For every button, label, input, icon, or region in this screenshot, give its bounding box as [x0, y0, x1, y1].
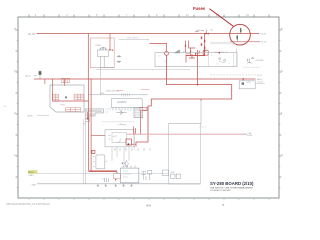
- Fuses callout leader line: [210, 9, 234, 27]
- svg-text:s1: s1: [228, 63, 230, 65]
- red pin grid bottom: [66, 108, 81, 112]
- junction dot mid rail: [242, 78, 244, 80]
- svg-text:jw12: jw12: [104, 111, 109, 113]
- svg-text:q1: q1: [113, 136, 115, 138]
- net arrow label right end of top rail: [258, 33, 260, 35]
- svg-text:QUARTZ: QUARTZ: [117, 101, 127, 104]
- svg-text:AC-D: AC-D: [26, 75, 32, 78]
- svg-text:r12: r12: [158, 55, 161, 58]
- svg-text:IC601: IC601: [123, 166, 129, 168]
- frame tick marks left: [16, 30, 19, 188]
- red sub-cluster left legs: [186, 41, 196, 56]
- pins left of K601: [93, 156, 94, 167]
- gray verticals to ground bus: [82, 119, 84, 184]
- dark dot in red box: [127, 143, 129, 145]
- wire: relay internal drops: [100, 56, 114, 67]
- wire: vertical gray through diode zone: [236, 49, 238, 67]
- transistor Q902 triangle on strip: [173, 50, 180, 54]
- frame tick marks bottom: [29, 198, 269, 200]
- svg-text:CN-5V: CN-5V: [260, 42, 267, 44]
- svg-text:+5V REG: +5V REG: [255, 60, 264, 62]
- red verticals in cluster: [134, 110, 141, 134]
- red pin grid left: [53, 94, 59, 101]
- red sub-cluster tick marks: [186, 45, 191, 53]
- connector pins crossing bus: [121, 93, 129, 96]
- frame tick marks right: [279, 30, 282, 188]
- red stub below block: [87, 112, 89, 119]
- gray link wires from cluster to diode group: [210, 42, 237, 44]
- svg-text:S601: S601: [171, 172, 175, 174]
- red elbow to lower right: [136, 142, 148, 147]
- wire: second fuse rail: [230, 41, 258, 43]
- wire: ground bus: [37, 183, 200, 185]
- svg-text:5V-SW: 5V-SW: [247, 135, 253, 137]
- svg-text:6-4: 6-4: [147, 204, 151, 208]
- diode D901: [117, 55, 121, 57]
- net arrow label right end of second rail: [258, 41, 260, 43]
- small box above IC601 left: [114, 174, 121, 179]
- zener squiggle: [248, 62, 252, 63]
- fuse F902: [236, 35, 238, 42]
- red supply pair vertical: [88, 79, 90, 171]
- sheet border frame: [18, 17, 279, 198]
- IC601 box: [120, 168, 138, 183]
- red pin grid right: [74, 94, 84, 99]
- IC600 pins below: [113, 108, 140, 111]
- wire: gray from yellow label: [37, 173, 168, 175]
- big bottom box (USB switch block): [169, 123, 201, 184]
- components above top rail near fuse cluster: [195, 30, 213, 34]
- IC601 inner marks: [123, 171, 131, 177]
- red drop from mid rail to block left: [51, 79, 53, 101]
- svg-text:A: A: [65, 96, 68, 100]
- small red box on supply line: [92, 150, 95, 153]
- capacitor cluster left of IC601: [102, 178, 109, 182]
- yellow highlighted net label: [28, 170, 37, 173]
- svg-text:d21: d21: [196, 62, 199, 64]
- svg-text:B: B: [15, 27, 17, 31]
- red branch down from trace: [200, 99, 202, 101]
- red parts inside strip: [186, 54, 195, 63]
- svg-text:CN602 DIGITAL: CN602 DIGITAL: [106, 90, 120, 93]
- wires from cluster box down to IC601 zone: [112, 147, 129, 165]
- ground symbol 5: [130, 184, 133, 187]
- pin box on left edge of big box: [163, 170, 169, 176]
- arrow label at right end of mid rail: [254, 78, 256, 80]
- wire: mid red rail: [34, 78, 254, 80]
- diode D902: [117, 61, 121, 63]
- strip internal divider 2: [233, 53, 235, 67]
- Fuses callout circle: [230, 24, 251, 45]
- IC601 top pins: [123, 166, 135, 169]
- svg-text:P.CTL: P.CTL: [257, 75, 262, 77]
- svg-text:ry2: ry2: [225, 51, 227, 54]
- svg-text:P901: P901: [61, 105, 65, 107]
- dark mark near Q602: [122, 163, 123, 165]
- switch IC strip box: [155, 53, 237, 67]
- svg-text:c1 r4 d2: c1 r4 d2: [105, 108, 111, 111]
- svg-text:H: H: [281, 153, 283, 157]
- dark mark in regulator box: [242, 82, 244, 84]
- stepped connector CN603: [85, 109, 103, 119]
- ground symbol 3: [114, 184, 117, 187]
- red drop from mid rail to block top: [63, 79, 65, 86]
- svg-text:LINE1: LINE1: [28, 175, 33, 177]
- strip interior faint refs: [158, 51, 230, 66]
- relay RY901 outer box: [90, 38, 114, 68]
- IC600 box: [111, 99, 142, 108]
- wire: gray bus y94.8: [89, 94, 149, 96]
- junction dot on trace: [197, 84, 199, 86]
- parts right of IC601: [142, 171, 152, 181]
- small mark right of page number: [223, 204, 225, 205]
- regulator box right: [239, 81, 255, 89]
- tiny red dot: [115, 179, 116, 180]
- red trace: cluster left leg: [195, 51, 199, 56]
- ground symbol 1: [97, 184, 100, 187]
- svg-text:q2: q2: [119, 141, 121, 143]
- fuse stack elements: [202, 37, 205, 50]
- svg-text:USB SWITCH / LINE POWER MANAGE: USB SWITCH / LINE POWER MANAGEMENT: [210, 187, 254, 190]
- svg-text:F90: F90: [237, 33, 240, 35]
- svg-text:D905 1SS133: D905 1SS133: [127, 37, 138, 39]
- label at end of pink rail: [245, 133, 247, 134]
- dashed gray line under caps: [243, 66, 260, 68]
- squiggle in regulator box: [246, 82, 250, 83]
- transistor Q901 (red): [165, 51, 169, 55]
- wire: red bus from block to center drop: [53, 100, 89, 102]
- red horizontal link pair-to-cluster: [91, 135, 105, 137]
- svg-text:5 0 1 2 3: 5 0 1 2 3: [199, 127, 206, 129]
- svg-text:B+ 9V: B+ 9V: [29, 33, 36, 36]
- parts inside big box bottom: [171, 174, 181, 178]
- red thick horizontal to IC601: [89, 170, 118, 172]
- red drop from thick line end: [116, 172, 118, 174]
- thermistor TH901: [39, 71, 42, 80]
- svg-text:± Money: ± Money: [118, 124, 127, 126]
- red rounded box at cluster base: [203, 50, 208, 55]
- gray step wires below block: [83, 119, 90, 124]
- svg-text:B: B: [281, 27, 283, 31]
- diode cluster right of strip: [218, 57, 225, 63]
- wire: gray elbow from trace down: [169, 101, 201, 123]
- wire: pink rail y133: [127, 133, 245, 135]
- red trace: stack to left drop: [186, 51, 205, 56]
- red link from small box: [131, 143, 136, 145]
- red power trace loop: [148, 55, 232, 142]
- IC601 bottom pin drops: [123, 183, 135, 184]
- pink underline segment: [117, 89, 123, 91]
- wire: red drop from cluster to relay box: [197, 50, 199, 85]
- svg-text:D.OUT: D.OUT: [258, 82, 264, 84]
- red stub drop x45: [44, 79, 46, 84]
- svg-text:D: D: [15, 69, 17, 73]
- ground symbol 4: [122, 184, 125, 187]
- relay coil hatch: [100, 47, 107, 50]
- transformer T902 block: [50, 85, 84, 112]
- svg-text:CN-9V: CN-9V: [260, 33, 267, 35]
- svg-text:AC5V: AC5V: [28, 171, 34, 174]
- red trace: right cluster feed: [150, 43, 167, 51]
- frame tick marks top: [29, 15, 269, 18]
- wire: stub: [37, 114, 49, 116]
- wire: dashed line y74.9: [210, 74, 256, 76]
- connector block with red top: [134, 108, 147, 118]
- red feeder drop left of relay: [87, 34, 89, 79]
- svg-text:AC90: AC90: [28, 114, 34, 117]
- cluster internals gray: [108, 133, 127, 143]
- frame zone labels: [15, 13, 283, 157]
- wire: long thin gray y69.4: [96, 68, 190, 70]
- wire: main red power rail top: [37, 33, 258, 35]
- wire: gray drop under pink rail: [133, 134, 135, 149]
- svg-text:H: H: [15, 153, 17, 157]
- svg-text:D: D: [281, 69, 283, 73]
- relay K601 tall box: [96, 155, 105, 169]
- svg-text:FAN-L: FAN-L: [257, 78, 264, 81]
- svg-text:10k: 10k: [216, 64, 219, 66]
- red arrow mark right of relay: [112, 49, 114, 51]
- wire: red line rect to small box right: [242, 79, 244, 81]
- red feeder drop x110 into relay: [109, 34, 111, 50]
- svg-text:– GND: – GND: [30, 184, 37, 186]
- svg-text:Fuses: Fuses: [193, 6, 206, 11]
- svg-text:SCHEMATIC DIAGRAM: SCHEMATIC DIAGRAM: [210, 189, 231, 192]
- svg-text:MHC-RG475S/RG575S_UC 9-876-543: MHC-RG475S/RG575S_UC 9-876-543-21: [7, 204, 51, 206]
- ticks hanging from top edge area: [115, 148, 150, 151]
- svg-text:4.7: 4.7: [211, 55, 213, 57]
- pink segment 2: [141, 89, 150, 91]
- svg-text:q9: q9: [183, 51, 185, 53]
- red trace: fuse stack feeder: [204, 34, 206, 51]
- wire from regulator box right: [255, 83, 265, 85]
- junction dot relay pin: [109, 49, 111, 51]
- junction dots on top rail: [205, 33, 207, 35]
- fuse F901: [240, 28, 242, 34]
- junction dot below block: [87, 118, 89, 120]
- green element in stack: [204, 50, 206, 52]
- wire: faint gray y121.8: [102, 121, 134, 123]
- ground symbol 2: [105, 184, 108, 187]
- wire: gray y39.7 with arrow: [119, 39, 148, 41]
- strip internal divider 1: [208, 53, 210, 67]
- center cluster box: [105, 130, 134, 147]
- red stub right of connector block: [143, 109, 146, 111]
- junction dot: [219, 52, 221, 54]
- transistor Q602 below cluster box: [125, 160, 129, 165]
- CN603 pin stripes: [86, 110, 102, 117]
- relay contact box: [98, 50, 109, 56]
- connector CN901 hatch on mid rail: [61, 78, 70, 82]
- svg-text:JW90: JW90: [196, 30, 201, 32]
- wire: vertical from relay area down: [99, 67, 101, 94]
- capacitor C910: [248, 57, 255, 62]
- svg-text:RY901: RY901: [96, 45, 101, 47]
- red component box in cluster: [126, 139, 131, 145]
- small transistor symbol center: [116, 110, 126, 114]
- svg-text:SY-280 BOARD (2/10): SY-280 BOARD (2/10): [210, 181, 254, 186]
